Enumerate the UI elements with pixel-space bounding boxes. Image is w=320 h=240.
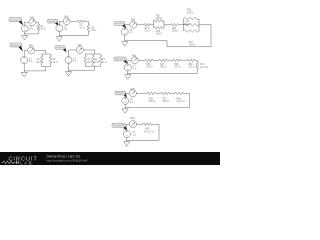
svg-text:Circuit 3: Circuit 3 bbox=[11, 44, 22, 47]
svg-text:50 Ω: 50 Ω bbox=[41, 29, 46, 31]
svg-text:21.21 Ω: 21.21 Ω bbox=[200, 67, 208, 69]
circuit F name tag pointer bbox=[124, 94, 127, 98]
label AM1 (circuit H) bbox=[131, 18, 136, 21]
wire R09 to corner (circuit E) bbox=[195, 60, 197, 62]
wire trio to right drop (circuit H) bbox=[199, 24, 211, 26]
label R3 50 Ohm (circuit D) bbox=[102, 59, 107, 64]
voltage source V1 (circuit C) bbox=[21, 57, 28, 64]
label R07 100 Ohm (circuit H) bbox=[189, 42, 196, 47]
label R06 431.21 Ohm (circuit G) bbox=[144, 129, 154, 134]
svg-text:R07: R07 bbox=[163, 98, 168, 100]
label R07 500 Ohm (circuit E) bbox=[160, 64, 167, 69]
top interconnect (circuit C) bbox=[42, 53, 51, 55]
label R11 500 Ohm (circuit F) bbox=[149, 98, 156, 103]
wire source-top to ammeter (circuit F) bbox=[125, 93, 129, 97]
bottom wire (circuit A) bbox=[25, 33, 39, 35]
wire R11-R12 (circuit F) bbox=[156, 92, 162, 94]
label R2 50 Ohm (circuit C) bbox=[53, 59, 58, 64]
label R02 100 Ohm (circuit H) bbox=[156, 16, 163, 21]
footer black bar bbox=[0, 152, 220, 165]
voltage source V1 (circuit G) bbox=[123, 130, 130, 137]
svg-text:50 Ω: 50 Ω bbox=[87, 62, 92, 64]
label V1 5V (circuit B) bbox=[64, 26, 68, 31]
ground (circuit C) bbox=[21, 71, 27, 77]
wire source-bottom (circuit B) bbox=[58, 32, 60, 36]
label R2 50 Ohm (circuit B) bbox=[80, 25, 85, 30]
circuit D name tag pointer bbox=[63, 48, 67, 52]
label R1 50 Ohm (circuit A) bbox=[41, 26, 46, 31]
circuit C name tag bbox=[10, 43, 22, 47]
svg-text:100 Ω: 100 Ω bbox=[185, 23, 191, 25]
wire pair to bottom rail (circuit C) bbox=[24, 67, 46, 71]
resistor R2 (circuit B) bbox=[77, 20, 85, 23]
wire R06-R07 (circuit E) bbox=[153, 59, 159, 61]
ammeter AM1 (circuit G) bbox=[129, 121, 136, 128]
wire trio to bottom rail (circuit D) bbox=[69, 66, 95, 70]
resistor R04 (circuit H) bbox=[171, 23, 179, 26]
ammeter AM1 (circuit C) bbox=[28, 47, 35, 54]
ammeter AM1 (circuit B) bbox=[63, 18, 70, 25]
wire source-bottom (circuit C) bbox=[23, 64, 25, 71]
circuit E name tag pointer bbox=[124, 60, 128, 64]
ammeter AM1 (circuit D) bbox=[76, 47, 83, 54]
circuit G name tag pointer bbox=[123, 126, 127, 130]
trio left bar (circuit H) bbox=[183, 19, 185, 31]
svg-text:100 Ω: 100 Ω bbox=[156, 18, 163, 20]
circuit F name tag bbox=[115, 91, 126, 95]
svg-text:Circuit 6: Circuit 6 bbox=[115, 58, 126, 61]
label AM1 (circuit F) bbox=[130, 88, 135, 91]
svg-text:21.21 Ω: 21.21 Ω bbox=[176, 101, 184, 103]
ground (circuit F) bbox=[122, 108, 128, 114]
label V1 5V (circuit G) bbox=[133, 132, 137, 137]
wire ammeter to parallel pair (circuit C) bbox=[35, 51, 46, 55]
ammeter AM1 (circuit H) bbox=[130, 21, 137, 28]
voltage source V1 (circuit H) bbox=[121, 28, 128, 35]
ground (circuit B) bbox=[56, 35, 62, 41]
wire R04 to trio (circuit H) bbox=[179, 24, 190, 26]
label R06 100 Ohm (circuit H) bbox=[185, 21, 191, 25]
svg-text:50 Ω: 50 Ω bbox=[94, 62, 99, 64]
label AM1 (circuit C) bbox=[29, 45, 34, 48]
wire source-bottom (circuit E) bbox=[127, 71, 129, 73]
label R09 100 Ohm (circuit E) bbox=[188, 64, 195, 69]
svg-text:AM1: AM1 bbox=[29, 45, 34, 48]
label R2 50 Ohm (circuit D) bbox=[94, 59, 99, 64]
svg-text:100 Ω: 100 Ω bbox=[174, 67, 181, 69]
circuit C name tag pointer bbox=[19, 46, 23, 52]
svg-text:R08: R08 bbox=[176, 98, 181, 100]
label R06 100 Ohm (circuit E) bbox=[146, 64, 153, 69]
wire source-top to ammeter (circuit H) bbox=[125, 25, 130, 28]
svg-text:Circuit 4: Circuit 4 bbox=[56, 46, 65, 49]
wire ammeter to R1 (circuit A) bbox=[36, 21, 39, 23]
wire ammeter to parallel trio (circuit D) bbox=[84, 50, 95, 54]
wire source-bottom (circuit D) bbox=[68, 64, 70, 70]
svg-text:R09: R09 bbox=[188, 64, 193, 66]
label R08 100 Ohm (circuit E) bbox=[174, 64, 181, 69]
label V1 5V (circuit E) bbox=[133, 66, 137, 71]
circuit E name tag bbox=[114, 57, 126, 61]
svg-text:R07: R07 bbox=[160, 64, 165, 66]
circuit D name tag bbox=[55, 46, 65, 50]
ground (circuit D) bbox=[65, 70, 71, 76]
label V1 5V (circuit A) bbox=[30, 26, 34, 31]
bottom interconnect (circuit C) bbox=[42, 66, 51, 68]
label AM1 (circuit A) bbox=[30, 16, 35, 19]
resistor R2 (circuit C) bbox=[49, 54, 52, 67]
resistor R06 (circuit E) bbox=[145, 59, 153, 62]
voltage source V1 (circuit F) bbox=[122, 97, 129, 104]
svg-text:Circuit 8: Circuit 8 bbox=[113, 124, 125, 127]
resistor R05 (circuit H) bbox=[184, 17, 200, 20]
resistor R01 (circuit H) bbox=[144, 23, 151, 26]
resistor R1 (circuit A) bbox=[37, 22, 40, 34]
ammeter AM1 (circuit E) bbox=[131, 57, 138, 64]
svg-text:50 Ω: 50 Ω bbox=[53, 62, 58, 64]
resistor R06 (circuit H) bbox=[184, 23, 200, 26]
wire ammeter to R11 (circuit F) bbox=[137, 92, 147, 94]
wire ammeter to R2 (circuit B) bbox=[70, 20, 77, 22]
resistor R12 (circuit F) bbox=[161, 92, 170, 95]
ammeter AM1 (circuit F) bbox=[129, 90, 136, 97]
ground (circuit E) bbox=[125, 73, 131, 79]
wire source-bottom (circuit A) bbox=[24, 32, 26, 34]
resistor R10 (circuit E) bbox=[196, 62, 199, 73]
label AM1 (circuit E) bbox=[132, 55, 137, 58]
svg-text:AM1: AM1 bbox=[30, 16, 35, 19]
bottom wire with jog (circuit H) bbox=[125, 40, 211, 46]
resistor R02 (circuit H) bbox=[153, 19, 164, 22]
wire source-bottom (circuit H) bbox=[124, 35, 126, 40]
voltage source V1 (circuit A) bbox=[21, 25, 28, 32]
svg-text:R10: R10 bbox=[200, 64, 205, 66]
wire R06 to corner (circuit G) bbox=[153, 124, 159, 140]
svg-text:50 Ω: 50 Ω bbox=[36, 62, 41, 64]
svg-text:50 Ω: 50 Ω bbox=[80, 27, 85, 29]
wire pair to R04 (circuit H) bbox=[164, 24, 171, 26]
circuit G name tag bbox=[112, 123, 125, 127]
circuit A name tag bbox=[9, 17, 22, 21]
circuit H name tag bbox=[114, 22, 125, 26]
label V1 5V (circuit H) bbox=[129, 30, 133, 35]
svg-text:5 V: 5 V bbox=[133, 68, 137, 70]
CircuitLab logo resistor zigzag bbox=[2, 161, 16, 164]
ammeter AM1 (circuit A) bbox=[29, 19, 36, 26]
resistor R03 (circuit H) bbox=[153, 26, 164, 29]
wire source-top to ammeter (circuit G) bbox=[127, 124, 129, 130]
label V1 5V (circuit F) bbox=[130, 99, 134, 104]
bottom wire (circuit E) bbox=[128, 72, 198, 74]
pair right bar (circuit H) bbox=[163, 21, 165, 28]
svg-text:50 Ω: 50 Ω bbox=[145, 31, 150, 33]
wire source-top to ammeter (circuit A) bbox=[25, 22, 29, 25]
resistor R07 (circuit H) bbox=[184, 30, 200, 33]
resistor R3 (circuit D) bbox=[99, 54, 102, 66]
top interconnect (circuit D) bbox=[85, 53, 100, 55]
resistor R07 (circuit E) bbox=[159, 59, 167, 62]
resistor R1 (circuit C) bbox=[40, 54, 43, 67]
svg-text:100 Ω: 100 Ω bbox=[156, 34, 163, 36]
svg-text:Circuit 2: Circuit 2 bbox=[48, 20, 57, 23]
svg-text:LAB: LAB bbox=[20, 160, 32, 165]
resistor R08 (circuit E) bbox=[173, 59, 181, 62]
label R05 100 Ohm (circuit H) bbox=[187, 10, 194, 15]
resistor R1 (circuit D) bbox=[84, 54, 87, 66]
svg-text:R06: R06 bbox=[146, 64, 151, 66]
svg-text:R08: R08 bbox=[174, 64, 179, 66]
label R04 100 Ohm (circuit H) bbox=[172, 28, 179, 33]
resistor R09 (circuit E) bbox=[187, 59, 195, 62]
wire source-top to ammeter (circuit E) bbox=[128, 60, 131, 63]
svg-text:5 V: 5 V bbox=[30, 29, 34, 31]
CircuitLab logo word LAB bbox=[20, 160, 32, 165]
wire R01 to pair (circuit H) bbox=[150, 24, 153, 26]
svg-text:AM1: AM1 bbox=[130, 88, 135, 91]
circuit H name tag pointer bbox=[122, 24, 126, 28]
svg-text:5 V: 5 V bbox=[133, 135, 137, 137]
wire source-bottom (circuit F) bbox=[124, 105, 126, 108]
circuit A name tag pointer bbox=[19, 20, 23, 25]
svg-text:431.21 Ω: 431.21 Ω bbox=[144, 131, 154, 133]
wire source-top to ammeter (circuit B) bbox=[59, 21, 63, 24]
pair left bar (circuit H) bbox=[152, 21, 154, 28]
label R1 50 Ohm (circuit C) bbox=[36, 59, 41, 64]
wire R07-R08 (circuit E) bbox=[167, 59, 173, 61]
svg-text:http://circuitlab.com/c/25fq2j: http://circuitlab.com/c/25fq2jk7wh/ bbox=[46, 158, 87, 162]
wire source-top to ammeter (circuit C) bbox=[24, 51, 27, 57]
svg-text:Circuit 1: Circuit 1 bbox=[10, 19, 21, 22]
svg-text:Circuit 7: Circuit 7 bbox=[116, 92, 126, 95]
svg-text:AM1: AM1 bbox=[132, 55, 137, 58]
svg-text:100 Ω: 100 Ω bbox=[189, 44, 196, 46]
bottom interconnect (circuit D) bbox=[85, 65, 100, 67]
resistor R3 (circuit B) bbox=[87, 24, 90, 35]
svg-text:500 Ω: 500 Ω bbox=[149, 101, 156, 103]
wire R2 to corner (circuit B) bbox=[85, 21, 88, 24]
circuit B name tag bbox=[47, 19, 57, 23]
svg-text:5 V: 5 V bbox=[29, 61, 33, 63]
svg-text:50 Ω: 50 Ω bbox=[91, 30, 96, 32]
svg-text:5 V: 5 V bbox=[130, 102, 134, 104]
label AM1 (circuit G) bbox=[130, 117, 135, 120]
footer url text bbox=[46, 158, 87, 162]
CircuitLab logo capacitor symbol bbox=[15, 161, 19, 164]
svg-text:500 Ω: 500 Ω bbox=[163, 101, 170, 103]
svg-text:AM1: AM1 bbox=[64, 15, 69, 18]
label R3 50 Ohm (circuit B) bbox=[91, 27, 96, 32]
svg-text:100 Ω: 100 Ω bbox=[146, 67, 153, 69]
svg-text:100 Ω: 100 Ω bbox=[188, 67, 195, 69]
wire R13 to corner (circuit F) bbox=[184, 93, 190, 107]
CircuitLab logo word CIRCUIT bbox=[8, 156, 37, 162]
wire ammeter to R06 (circuit G) bbox=[137, 123, 143, 125]
footer circuit title text bbox=[46, 154, 80, 158]
wire source-top to ammeter (circuit D) bbox=[69, 50, 77, 56]
label R1 50 Ohm (circuit D) bbox=[87, 59, 92, 64]
svg-text:100 Ω: 100 Ω bbox=[187, 12, 194, 14]
svg-text:Circuit 5: Circuit 5 bbox=[115, 22, 125, 25]
resistor R06 equivalent (circuit G) bbox=[143, 123, 153, 126]
wire ammeter to R06 (circuit E) bbox=[139, 59, 146, 61]
svg-text:AM1: AM1 bbox=[131, 18, 136, 21]
label R13 21.21 Ohm (circuit F) bbox=[176, 98, 184, 103]
voltage source V1 (circuit E) bbox=[124, 64, 131, 71]
label R10 21.21 Ohm (circuit E) bbox=[200, 64, 208, 69]
svg-text:5 V: 5 V bbox=[64, 29, 68, 31]
svg-text:50 Ω: 50 Ω bbox=[102, 62, 107, 64]
label AM1 (circuit D) bbox=[77, 44, 82, 47]
voltage source V1 (circuit D) bbox=[65, 57, 72, 64]
svg-text:100 Ω: 100 Ω bbox=[172, 31, 179, 33]
svg-text:CIRCUIT: CIRCUIT bbox=[8, 156, 37, 162]
svg-text:R06: R06 bbox=[149, 98, 154, 100]
voltage source V1 (circuit B) bbox=[56, 25, 63, 32]
ground (circuit G) bbox=[124, 140, 130, 146]
label V1 5V (circuit C) bbox=[29, 58, 33, 63]
circuit B name tag pointer bbox=[55, 22, 58, 26]
resistor R13 (circuit F) bbox=[175, 92, 184, 95]
svg-text:R06: R06 bbox=[145, 129, 150, 131]
resistor R2 (circuit D) bbox=[92, 54, 95, 66]
label AM1 (circuit B) bbox=[64, 15, 69, 18]
label V1 5V (circuit D) bbox=[73, 59, 77, 64]
wire ammeter to R01 (circuit H) bbox=[137, 24, 144, 26]
trio right bar (circuit H) bbox=[198, 19, 200, 31]
bottom wire (circuit G) bbox=[127, 139, 159, 141]
svg-text:500 Ω: 500 Ω bbox=[160, 67, 167, 69]
svg-text:AM1: AM1 bbox=[130, 117, 135, 120]
ground (circuit H) bbox=[122, 40, 128, 46]
label R03 100 Ohm (circuit H) bbox=[156, 31, 163, 36]
right drop wire (circuit H) bbox=[210, 25, 212, 47]
svg-text:5 V: 5 V bbox=[73, 61, 77, 63]
svg-text:5 V: 5 V bbox=[129, 33, 133, 35]
bottom wire (circuit F) bbox=[125, 107, 189, 109]
wire R12-R13 (circuit F) bbox=[170, 92, 176, 94]
wire source-bottom (circuit G) bbox=[126, 138, 128, 140]
label R12 500 Ohm (circuit F) bbox=[163, 98, 170, 103]
resistor R11 (circuit F) bbox=[147, 92, 156, 95]
svg-text:AM1: AM1 bbox=[77, 44, 82, 47]
bottom wire (circuit B) bbox=[59, 34, 88, 36]
label R01 50 Ohm (circuit H) bbox=[145, 28, 150, 33]
wire R08-R09 (circuit E) bbox=[181, 59, 187, 61]
ground (circuit A) bbox=[22, 34, 28, 40]
